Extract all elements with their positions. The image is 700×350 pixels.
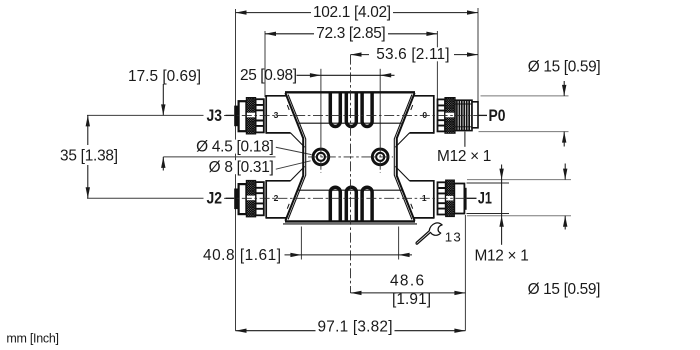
- svg-text:25 [0.98]: 25 [0.98]: [240, 67, 297, 84]
- svg-text:Ø 4.5 [0.18]: Ø 4.5 [0.18]: [196, 138, 274, 155]
- svg-text:P0: P0: [489, 107, 506, 125]
- svg-text:35 [1.38]: 35 [1.38]: [60, 148, 118, 165]
- svg-text:M12 × 1: M12 × 1: [437, 148, 491, 165]
- svg-text:0: 0: [422, 110, 427, 120]
- svg-text:Ø 15 [0.59]: Ø 15 [0.59]: [528, 59, 601, 76]
- svg-text:Ø 15 [0.59]: Ø 15 [0.59]: [528, 281, 601, 298]
- svg-text:53.6 [2.11]: 53.6 [2.11]: [376, 46, 449, 63]
- svg-text:Ø 8 [0.31]: Ø 8 [0.31]: [209, 159, 274, 176]
- svg-text:J1: J1: [478, 190, 492, 208]
- svg-text:J2: J2: [207, 190, 223, 208]
- svg-text:97.1 [3.82]: 97.1 [3.82]: [318, 319, 393, 336]
- svg-text:102.1 [4.02]: 102.1 [4.02]: [313, 4, 391, 21]
- svg-text:40.8 [1.61]: 40.8 [1.61]: [203, 247, 281, 264]
- svg-text:48.6: 48.6: [390, 273, 424, 290]
- svg-text:13: 13: [445, 229, 461, 244]
- svg-text:mm [Inch]: mm [Inch]: [6, 332, 59, 346]
- svg-text:M12 × 1: M12 × 1: [474, 247, 528, 264]
- svg-text:J3: J3: [207, 107, 223, 125]
- svg-text:[1.91]: [1.91]: [392, 291, 431, 308]
- svg-text:3: 3: [274, 110, 279, 120]
- svg-text:17.5 [0.69]: 17.5 [0.69]: [128, 68, 201, 85]
- svg-text:72.3 [2.85]: 72.3 [2.85]: [316, 25, 385, 42]
